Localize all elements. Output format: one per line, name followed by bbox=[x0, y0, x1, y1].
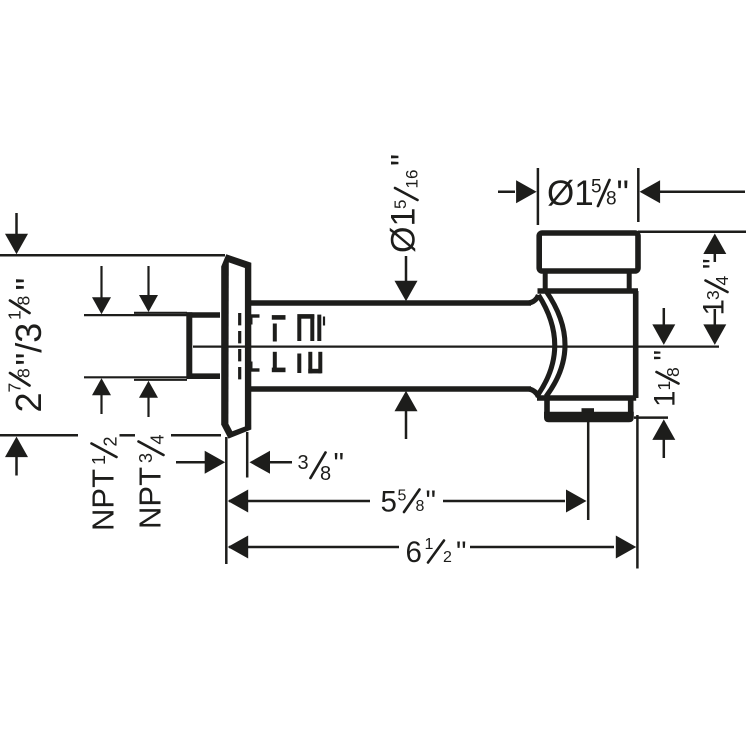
svg-text:NPT: NPT bbox=[133, 467, 168, 529]
svg-text:"/3: "/3 bbox=[8, 323, 49, 366]
svg-text:8: 8 bbox=[663, 367, 683, 377]
svg-text:": " bbox=[334, 448, 344, 481]
svg-text:2: 2 bbox=[443, 549, 452, 566]
svg-text:5: 5 bbox=[591, 177, 602, 198]
svg-text:1: 1 bbox=[5, 310, 25, 320]
svg-text:8: 8 bbox=[14, 296, 34, 306]
svg-text:2: 2 bbox=[8, 392, 49, 412]
svg-text:": " bbox=[426, 485, 436, 518]
svg-text:8: 8 bbox=[320, 463, 331, 485]
svg-text:": " bbox=[698, 259, 731, 269]
svg-text:3: 3 bbox=[298, 452, 309, 474]
svg-text:": " bbox=[456, 536, 466, 569]
svg-text:NPT: NPT bbox=[86, 469, 121, 531]
svg-text:Ø1: Ø1 bbox=[547, 174, 594, 213]
svg-text:1: 1 bbox=[654, 381, 674, 391]
svg-text:8: 8 bbox=[14, 368, 34, 378]
svg-text:6: 6 bbox=[406, 536, 422, 569]
svg-text:": " bbox=[649, 350, 682, 360]
svg-text:": " bbox=[617, 174, 629, 213]
svg-text:1: 1 bbox=[698, 299, 731, 315]
svg-text:8: 8 bbox=[416, 498, 425, 515]
svg-text:Ø1: Ø1 bbox=[385, 208, 423, 253]
svg-text:4: 4 bbox=[148, 434, 168, 444]
svg-text:5: 5 bbox=[381, 486, 397, 519]
svg-text:4: 4 bbox=[712, 276, 732, 286]
svg-text:": " bbox=[8, 278, 49, 291]
svg-text:3: 3 bbox=[703, 290, 723, 300]
svg-text:3: 3 bbox=[136, 453, 156, 463]
svg-text:7: 7 bbox=[5, 383, 25, 393]
svg-text:2: 2 bbox=[101, 436, 121, 446]
svg-text:1: 1 bbox=[425, 536, 434, 553]
svg-text:5: 5 bbox=[391, 200, 410, 209]
svg-text:": " bbox=[385, 154, 423, 166]
svg-text:1: 1 bbox=[649, 391, 682, 407]
svg-text:5: 5 bbox=[398, 488, 407, 505]
svg-text:16: 16 bbox=[403, 170, 422, 189]
svg-text:1: 1 bbox=[89, 455, 109, 465]
svg-text:8: 8 bbox=[606, 188, 617, 209]
